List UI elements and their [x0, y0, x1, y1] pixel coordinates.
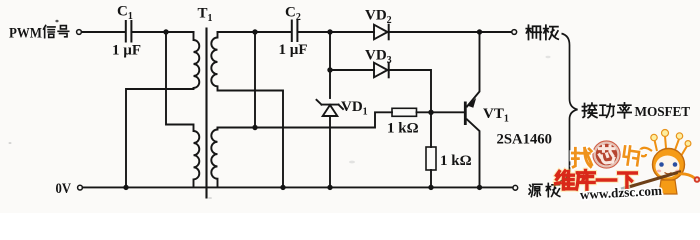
- svg-text:1 kΩ: 1 kΩ: [440, 153, 472, 169]
- svg-text:MOSFET: MOSFET: [635, 104, 691, 119]
- svg-text:2SA1460: 2SA1460: [497, 132, 553, 148]
- svg-text:1 µF: 1 µF: [279, 42, 308, 58]
- svg-text:1 µF: 1 µF: [112, 43, 141, 59]
- svg-text:1 kΩ: 1 kΩ: [387, 121, 419, 137]
- svg-text:0V: 0V: [56, 181, 72, 197]
- svg-text:PWM: PWM: [9, 26, 42, 42]
